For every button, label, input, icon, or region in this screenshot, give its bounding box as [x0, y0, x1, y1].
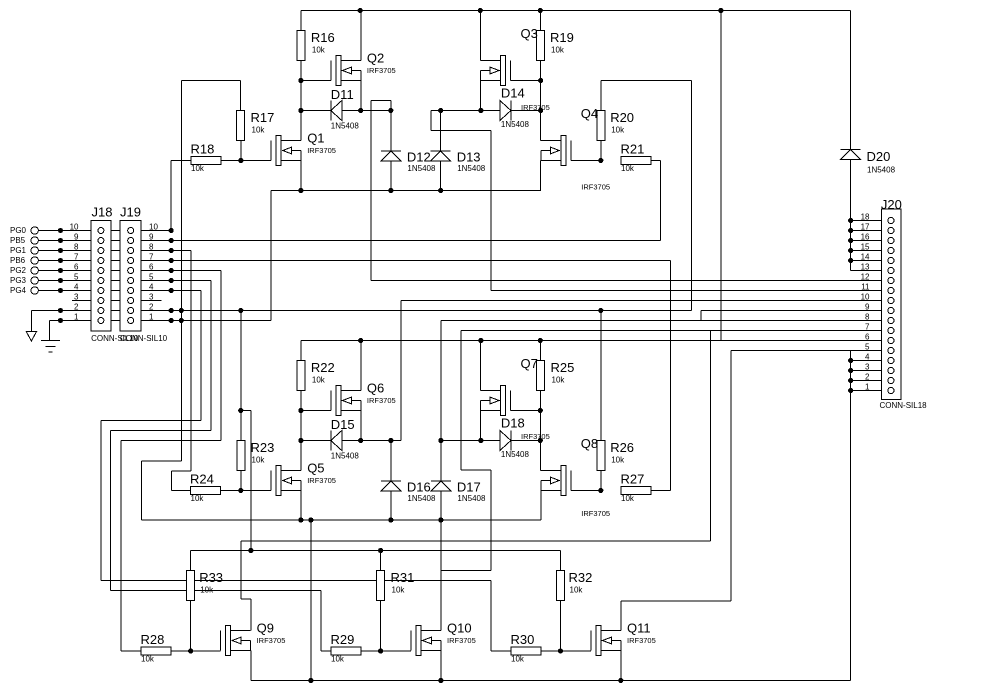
- svg-text:PG3: PG3: [10, 276, 27, 285]
- svg-text:R22: R22: [311, 360, 335, 375]
- wire D14 row: [431, 110, 541, 112]
- svg-text:10k: 10k: [191, 494, 205, 503]
- wire Q9 source to bottom rail: [250, 651, 252, 681]
- wire R23 bottom: [240, 471, 242, 491]
- svg-text:2: 2: [865, 373, 870, 382]
- svg-text:16: 16: [861, 233, 870, 242]
- transistor Q9: [221, 621, 286, 656]
- svg-text:10k: 10k: [331, 655, 345, 664]
- wire J19 pin9 row to R21: [134, 240, 661, 242]
- wire R22-D15 column: [300, 411, 302, 471]
- svg-text:IRF3705: IRF3705: [581, 183, 610, 192]
- transistor Q2: [331, 51, 396, 86]
- svg-text:D15: D15: [331, 417, 355, 432]
- svg-text:10k: 10k: [141, 655, 155, 664]
- wire Q2 source: [360, 81, 362, 111]
- wire Q2 gate: [301, 80, 331, 82]
- svg-text:D18: D18: [501, 416, 525, 431]
- svg-text:1: 1: [74, 313, 79, 322]
- node lower rail junctions: [358, 338, 543, 343]
- svg-text:10: 10: [70, 223, 79, 232]
- wire J20 pin5 row to Q11 drain: [731, 351, 888, 601]
- svg-text:D13: D13: [457, 150, 481, 165]
- node gate feed junctions: [248, 548, 383, 553]
- wire R27 right to J19 pin7 column: [651, 490, 670, 492]
- port PG1: [10, 246, 38, 255]
- node top ground rail junctions: [298, 188, 443, 193]
- svg-text:R25: R25: [551, 360, 575, 375]
- wire gate feed line y550: [191, 550, 561, 552]
- transistor Q5: [271, 461, 336, 496]
- wire top supply rail: [301, 10, 851, 12]
- svg-text:IRF3705: IRF3705: [367, 66, 396, 75]
- wire D20 to J20 pins 18-13: [851, 160, 888, 271]
- svg-text:Q10: Q10: [447, 621, 472, 636]
- svg-text:8: 8: [865, 313, 870, 322]
- svg-text:1N5408: 1N5408: [331, 452, 360, 461]
- svg-text:6: 6: [149, 263, 154, 272]
- node lower gate row junctions: [238, 488, 603, 493]
- svg-text:IRF3705: IRF3705: [307, 476, 336, 485]
- wire R17 top loop: [181, 81, 240, 111]
- wire Q9 drain from J20 pin7 line: [241, 331, 711, 631]
- wire R19 column to Q4 drain: [541, 81, 561, 141]
- svg-text:14: 14: [861, 253, 870, 262]
- svg-text:Q2: Q2: [367, 51, 384, 66]
- wire Q6 drain: [360, 341, 362, 391]
- svg-text:Q3: Q3: [521, 26, 538, 41]
- resistor R18: [191, 142, 222, 174]
- wire J20 pin7 row: [441, 331, 888, 571]
- svg-text:9: 9: [149, 233, 154, 242]
- wire R22 leads: [300, 341, 302, 411]
- wire D16 leads: [390, 441, 392, 521]
- wire J20 pin8 column to D17 top: [440, 321, 442, 441]
- svg-text:IRF3705: IRF3705: [521, 103, 550, 112]
- svg-text:7: 7: [74, 253, 79, 262]
- wire R17 bottom: [240, 141, 242, 161]
- svg-text:1N5408: 1N5408: [501, 450, 530, 459]
- wire R28-R33-Q9 gate row: [171, 650, 221, 652]
- wire R16-D11 column: [300, 81, 302, 141]
- wire R32 bottom: [560, 601, 562, 652]
- svg-text:1N5408: 1N5408: [407, 164, 436, 173]
- svg-text:Q4: Q4: [581, 106, 598, 121]
- resistor R29: [331, 632, 362, 664]
- svg-text:10k: 10k: [551, 46, 565, 55]
- svg-text:1: 1: [865, 383, 870, 392]
- resistor R28: [141, 632, 172, 664]
- diode D16: [381, 480, 436, 504]
- svg-text:Q1: Q1: [307, 131, 324, 146]
- svg-text:5: 5: [74, 273, 79, 282]
- wire J19 pin5 row to R29: [111, 281, 331, 652]
- transistor Q11: [591, 621, 656, 656]
- svg-text:1N5408: 1N5408: [867, 166, 896, 175]
- port PG4: [10, 286, 38, 295]
- connector J18: [70, 205, 139, 344]
- svg-text:D16: D16: [407, 480, 431, 495]
- svg-text:10k: 10k: [392, 586, 406, 595]
- svg-text:CONN-SIL18: CONN-SIL18: [880, 401, 928, 410]
- svg-text:R30: R30: [511, 632, 535, 647]
- svg-text:5: 5: [865, 343, 870, 352]
- wire D13 top jog to J20 pin11 column: [431, 111, 491, 291]
- wire Q5 source: [300, 491, 302, 521]
- svg-text:Q5: Q5: [307, 461, 324, 476]
- svg-text:R23: R23: [251, 440, 275, 455]
- svg-text:IRF3705: IRF3705: [257, 636, 286, 645]
- svg-text:6: 6: [865, 333, 870, 342]
- wire R32 top: [560, 551, 562, 571]
- wire lower ground rail: [142, 519, 542, 521]
- svg-text:R20: R20: [610, 110, 634, 125]
- wire Q5 drain: [300, 441, 302, 471]
- node D11-D14 row junctions: [298, 108, 543, 113]
- svg-text:4: 4: [74, 283, 79, 292]
- wire R25 column to Q8 drain: [540, 411, 561, 471]
- wire Q2 drain: [360, 11, 362, 61]
- wire J18 pin3 stub: [72, 300, 98, 302]
- wire ground rail to J19 pin1: [270, 191, 272, 321]
- svg-text:10k: 10k: [200, 586, 214, 595]
- svg-text:D20: D20: [867, 149, 891, 164]
- wire R25 leads: [539, 341, 541, 411]
- wire Q1 source: [300, 161, 302, 191]
- diode D13: [431, 150, 486, 174]
- svg-text:1: 1: [149, 313, 154, 322]
- svg-text:Q7: Q7: [521, 356, 538, 371]
- wire Q3 drain: [479, 11, 481, 61]
- svg-text:CONN-SIL10: CONN-SIL10: [120, 334, 168, 343]
- svg-text:10k: 10k: [552, 376, 566, 385]
- wire J19 pin6 row to R28: [121, 271, 221, 652]
- transistor Q4: [541, 106, 610, 192]
- svg-text:10k: 10k: [570, 586, 584, 595]
- resistor R33: [187, 570, 223, 601]
- svg-text:J18: J18: [92, 205, 113, 220]
- svg-text:R21: R21: [621, 142, 645, 157]
- svg-text:10k: 10k: [511, 655, 525, 664]
- wire D11 leads: [301, 110, 391, 112]
- svg-text:D11: D11: [331, 87, 354, 102]
- wire Q11 drain to J20 pin5 column: [621, 601, 731, 631]
- resistor R30: [511, 632, 542, 664]
- transistor Q10: [411, 621, 476, 656]
- wire Q4 gate row: [571, 160, 601, 162]
- wire R31 bottom: [380, 601, 382, 652]
- value Q7 IRF3705: [521, 432, 550, 441]
- svg-text:10k: 10k: [312, 46, 326, 55]
- wire rows between J18 and J19: [104, 231, 128, 321]
- svg-text:3: 3: [74, 293, 79, 302]
- wire J19 pin7 row to R27: [134, 261, 671, 491]
- svg-text:R16: R16: [311, 30, 335, 45]
- svg-text:2: 2: [74, 303, 79, 312]
- transistor Q1: [271, 131, 336, 166]
- svg-text:7: 7: [149, 253, 154, 262]
- svg-text:1N5408: 1N5408: [501, 120, 530, 129]
- wire R18 left to J19 pin10: [171, 161, 191, 231]
- resistor R23: [237, 440, 275, 471]
- node bottom gate row junctions: [188, 648, 563, 653]
- diode D20: [841, 149, 896, 175]
- svg-text:J19: J19: [120, 205, 141, 220]
- value Q3 IRF3705: [521, 103, 550, 112]
- svg-text:1N5408: 1N5408: [331, 122, 360, 131]
- wire R20 top loop to J20 pin9 column: [601, 81, 692, 311]
- node bottom rail junctions: [308, 678, 623, 683]
- wire R16 leads: [300, 11, 302, 81]
- svg-text:9: 9: [74, 233, 79, 242]
- resistor R25: [536, 360, 574, 391]
- svg-text:Q6: Q6: [367, 381, 384, 396]
- ground earth symbol: [41, 341, 60, 353]
- wire J20 pin10 column to D16 node: [400, 301, 402, 441]
- svg-text:D14: D14: [501, 86, 525, 101]
- resistor R32: [557, 570, 593, 601]
- diode D18: [500, 416, 530, 460]
- node ground bus junctions: [179, 308, 184, 323]
- node Q2-Q3 gate junctions: [298, 78, 543, 83]
- svg-text:5: 5: [149, 273, 154, 282]
- svg-text:10k: 10k: [252, 126, 266, 135]
- wire Q11 source to bottom rail: [620, 651, 622, 681]
- resistor R19: [536, 30, 574, 61]
- resistor R26: [597, 440, 634, 471]
- wire Q7 drain: [479, 341, 481, 391]
- svg-text:10k: 10k: [191, 164, 205, 173]
- svg-text:8: 8: [149, 243, 154, 252]
- wire bottom ground rail: [251, 680, 851, 682]
- svg-text:1N5408: 1N5408: [407, 494, 436, 503]
- wire Q8 source to lower ground rail: [540, 491, 542, 521]
- svg-text:15: 15: [861, 243, 870, 252]
- svg-text:IRF3705: IRF3705: [447, 636, 476, 645]
- wire D12 leads: [390, 111, 392, 191]
- connector J20: [861, 197, 928, 410]
- node J20 bottom bus junctions: [848, 358, 853, 393]
- wire ground bus from R17: [180, 81, 182, 462]
- wire R18-R17-Q1 gate row: [221, 160, 271, 162]
- node D20 bus junctions: [848, 218, 853, 263]
- wire R21 right to J19 pin9: [651, 161, 661, 241]
- wire R30-R32-Q11 gate row: [541, 650, 591, 652]
- svg-text:2: 2: [149, 303, 154, 312]
- resistor R20: [597, 110, 634, 141]
- node D15-D18 row junctions: [298, 438, 543, 443]
- wire ground row J19 pin2 to J20 pin9: [32, 310, 692, 312]
- port PB5: [10, 236, 38, 245]
- wire R33 top: [190, 551, 192, 571]
- svg-text:R29: R29: [331, 632, 355, 647]
- wire D13 leads: [440, 111, 442, 191]
- svg-text:R26: R26: [610, 440, 634, 455]
- wire Q3 source: [479, 81, 481, 111]
- resistor R16: [297, 30, 335, 61]
- svg-text:R28: R28: [141, 632, 165, 647]
- svg-text:11: 11: [861, 283, 870, 292]
- node port row junctions: [58, 228, 63, 323]
- svg-text:R19: R19: [550, 30, 574, 45]
- transistor Q3: [481, 26, 538, 86]
- node gate row junctions: [238, 158, 603, 163]
- wire D18 row: [441, 440, 540, 442]
- connector J19: [120, 205, 168, 344]
- svg-text:10k: 10k: [611, 456, 625, 465]
- wire J20 pin11 row: [491, 290, 888, 292]
- wire J19 pin3 stub: [134, 300, 162, 302]
- svg-text:Q8: Q8: [581, 436, 598, 451]
- transistor Q8: [541, 436, 610, 518]
- wire R26 bottom: [600, 471, 602, 491]
- svg-text:3: 3: [865, 363, 870, 372]
- wire Q1 drain: [300, 111, 302, 141]
- wire Q6 source: [360, 411, 362, 441]
- wire Q4 source to ground rail: [540, 161, 542, 191]
- wire port rows to connectors: [39, 231, 98, 291]
- svg-text:1N5408: 1N5408: [457, 494, 486, 503]
- port PG0: [10, 226, 38, 235]
- node J19 row-end junctions: [169, 228, 174, 323]
- wire R31 top: [380, 551, 382, 571]
- diode D12: [381, 150, 436, 174]
- svg-text:Q9: Q9: [257, 621, 274, 636]
- svg-text:R31: R31: [391, 570, 415, 585]
- svg-text:IRF3705: IRF3705: [581, 509, 610, 518]
- wire Q10 drain: [440, 520, 442, 631]
- svg-text:IRF3705: IRF3705: [627, 636, 656, 645]
- svg-text:10k: 10k: [252, 456, 266, 465]
- svg-text:IRF3705: IRF3705: [367, 396, 396, 405]
- svg-text:10k: 10k: [611, 126, 625, 135]
- wire J20 pin9 row: [701, 311, 888, 321]
- wire R23 top loop to gate feed line: [241, 411, 251, 551]
- svg-text:R27: R27: [621, 472, 645, 487]
- resistor R21: [621, 142, 652, 174]
- svg-text:D17: D17: [457, 480, 481, 495]
- node top rail junctions: [358, 8, 724, 13]
- svg-text:PB6: PB6: [10, 256, 26, 265]
- resistor R22: [297, 360, 335, 391]
- svg-text:IRF3705: IRF3705: [307, 146, 336, 155]
- resistor R24: [190, 472, 221, 504]
- resistor R31: [377, 570, 415, 601]
- diode D15: [331, 417, 360, 461]
- wire R24 right to Q5 gate: [221, 490, 272, 492]
- svg-text:PG1: PG1: [10, 246, 27, 255]
- port PB6: [10, 256, 38, 265]
- wire D17 leads: [440, 441, 442, 521]
- wire R19 leads: [539, 11, 541, 81]
- svg-text:PG2: PG2: [10, 266, 27, 275]
- wire J20 pins 5-1 bus: [851, 351, 888, 681]
- svg-text:7: 7: [865, 323, 870, 332]
- svg-text:10k: 10k: [621, 164, 635, 173]
- svg-text:9: 9: [865, 303, 870, 312]
- svg-text:10: 10: [861, 293, 870, 302]
- svg-text:1N5408: 1N5408: [457, 164, 486, 173]
- svg-text:PG0: PG0: [10, 226, 27, 235]
- wire R33 bottom: [190, 601, 192, 652]
- svg-text:18: 18: [861, 213, 870, 222]
- wire lower supply rail to J20 pin6: [301, 340, 888, 342]
- wire top ground rail: [271, 190, 541, 192]
- svg-text:PB5: PB5: [10, 236, 26, 245]
- svg-text:13: 13: [861, 263, 870, 272]
- svg-text:R18: R18: [191, 142, 215, 157]
- wire J20 pin8 row: [441, 320, 888, 322]
- wire J19 pin10 row: [134, 230, 172, 232]
- wire ground bus stair to lower rail: [142, 461, 182, 520]
- wire J19 pin4 row to R30: [101, 291, 511, 652]
- svg-text:PG4: PG4: [10, 286, 27, 295]
- svg-text:IRF3705: IRF3705: [521, 432, 550, 441]
- wire ground arrow lead: [30, 311, 32, 332]
- wire R29-R31-Q10 gate row: [361, 650, 411, 652]
- wire top rail drop to D20: [850, 11, 852, 150]
- wire R26 top from ground row: [600, 311, 602, 441]
- transistor Q7: [481, 356, 538, 416]
- svg-text:D12: D12: [407, 150, 431, 165]
- wire J19 pin8 row to R24: [134, 251, 191, 491]
- port PG3: [10, 276, 38, 285]
- wire ground earth lead: [49, 321, 51, 341]
- node ground row junctions: [238, 308, 603, 313]
- wire Q6 gate: [301, 410, 331, 412]
- wire D12 jog: [371, 101, 391, 281]
- svg-text:10: 10: [149, 223, 158, 232]
- node lower ground rail junctions: [298, 517, 443, 522]
- svg-text:10k: 10k: [312, 376, 326, 385]
- wire top rail drop to lower rail: [720, 11, 722, 341]
- resistor R17: [237, 110, 275, 141]
- diode D11: [331, 87, 360, 131]
- wire J20 pin12 row: [371, 280, 887, 282]
- svg-text:4: 4: [149, 283, 154, 292]
- svg-text:3: 3: [149, 293, 154, 302]
- svg-text:8: 8: [74, 243, 79, 252]
- svg-text:R24: R24: [190, 472, 214, 487]
- wire R20 bottom: [600, 141, 602, 161]
- svg-text:R17: R17: [251, 110, 275, 125]
- diode D17: [431, 480, 486, 504]
- transistor Q6: [331, 381, 396, 416]
- wire Q10 source to bottom rail: [440, 651, 442, 681]
- wire Q8 gate row: [571, 490, 601, 492]
- diode D14: [500, 86, 530, 130]
- port PG2: [10, 266, 38, 275]
- wire Q7 gate to R25: [511, 410, 541, 412]
- svg-text:R33: R33: [199, 570, 223, 585]
- svg-text:Q11: Q11: [627, 621, 651, 636]
- wire J19 pin1 row: [50, 320, 272, 322]
- wire D15 leads: [301, 440, 401, 442]
- node Q6-Q7 gate junctions: [238, 408, 543, 413]
- wire Q7 source: [479, 411, 481, 441]
- svg-text:17: 17: [861, 223, 870, 232]
- wire J20 pin10 row: [401, 300, 887, 302]
- svg-text:4: 4: [865, 353, 870, 362]
- wire rail drop to bottom rail: [310, 520, 312, 681]
- resistor R27: [621, 472, 652, 504]
- wire R23 top from ground row: [240, 311, 242, 441]
- ground arrow symbol: [26, 332, 36, 342]
- svg-text:6: 6: [74, 263, 79, 272]
- svg-text:R32: R32: [569, 570, 593, 585]
- svg-text:10k: 10k: [621, 494, 635, 503]
- svg-text:12: 12: [861, 273, 870, 282]
